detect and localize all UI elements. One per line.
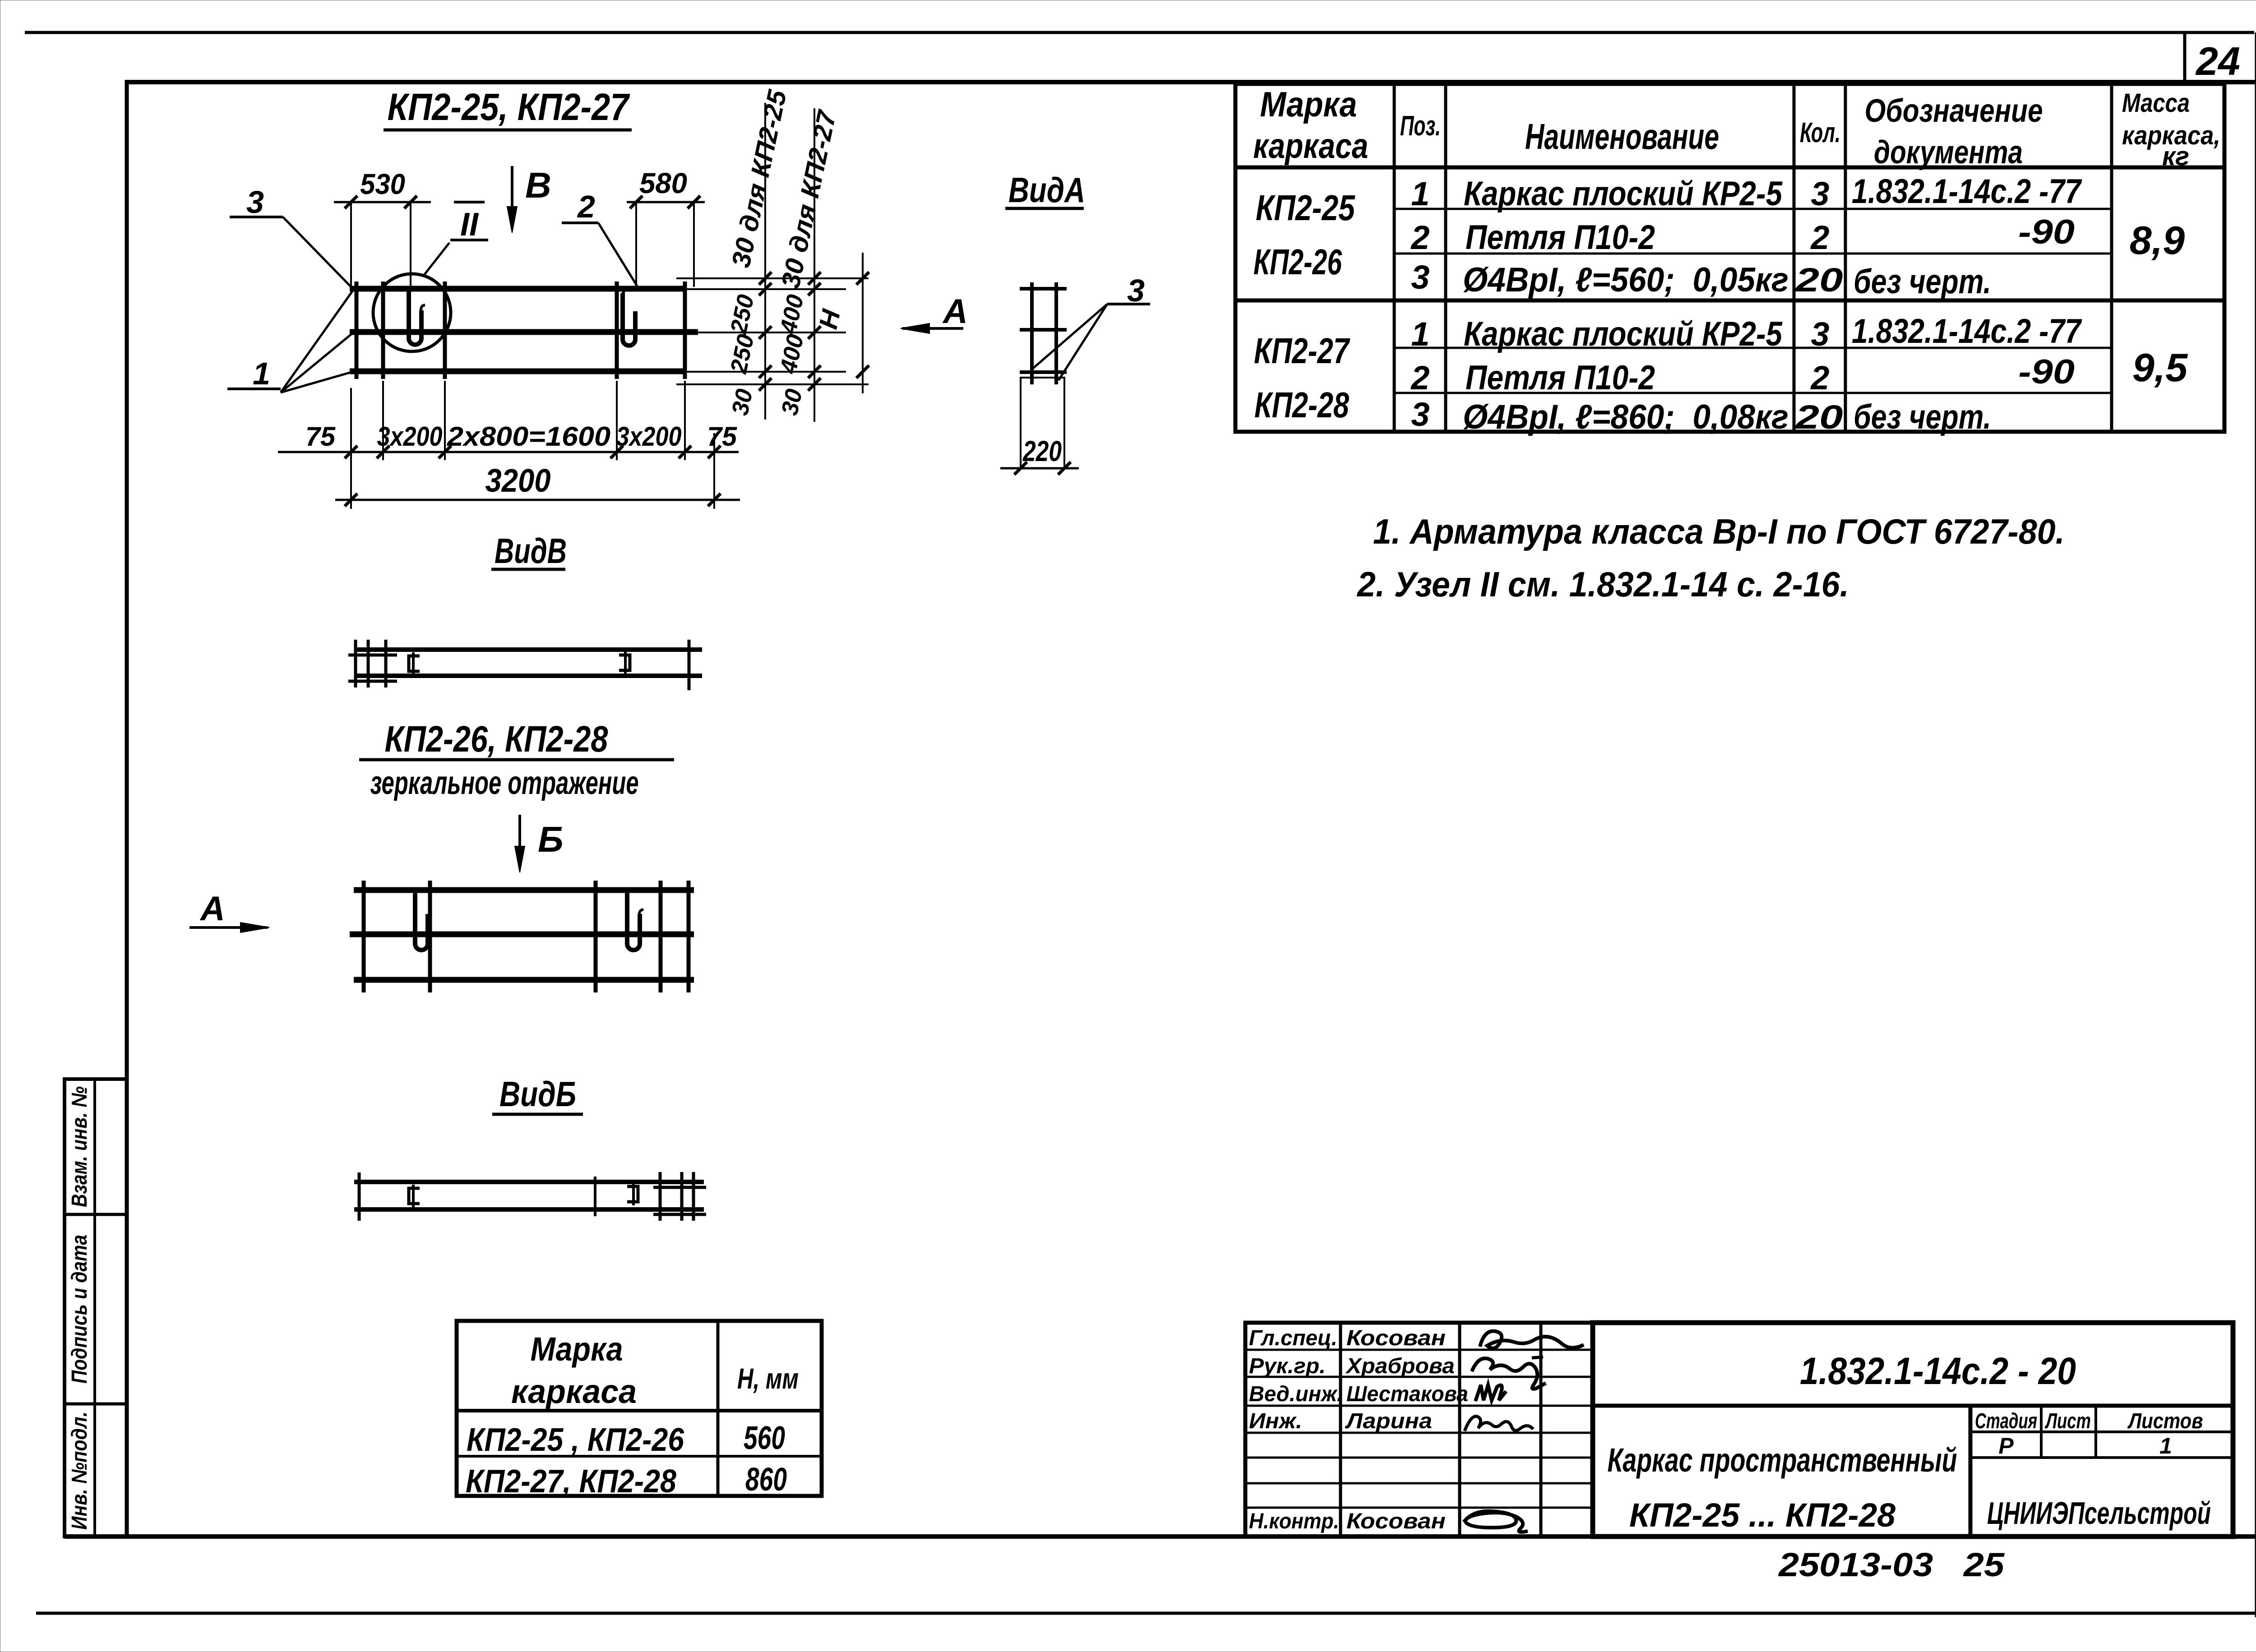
view A callout 3 bbox=[1033, 273, 1150, 380]
main cage bottom bar bbox=[350, 369, 686, 374]
view B right end bar bbox=[688, 640, 691, 690]
svg-text:2x800=1600: 2x800=1600 bbox=[447, 421, 610, 452]
view Б bottom bar bbox=[354, 1207, 704, 1212]
svg-text:1: 1 bbox=[1411, 315, 1429, 353]
svg-text:В: В bbox=[525, 165, 551, 205]
main cage right loop (Петля П10-2) bbox=[623, 290, 635, 346]
svg-text:Каркас плоский КР2-5: Каркас плоский КР2-5 bbox=[1464, 175, 1783, 213]
main cage middle bar bbox=[350, 329, 698, 335]
view B top bar bbox=[356, 647, 702, 652]
svg-text:А: А bbox=[199, 890, 225, 928]
view arrow B bbox=[507, 165, 551, 233]
svg-text:без черт.: без черт. bbox=[1854, 263, 1991, 301]
svg-text:20: 20 bbox=[1794, 398, 1843, 436]
H table bbox=[457, 1321, 822, 1496]
view arrow A (left) bbox=[901, 292, 968, 333]
svg-text:Подпись и дата: Подпись и дата bbox=[68, 1235, 92, 1384]
notes bbox=[1373, 512, 2065, 551]
view B right loop bbox=[619, 651, 630, 674]
svg-text:3x200: 3x200 bbox=[377, 421, 443, 452]
svg-text:Обозначение: Обозначение bbox=[1865, 93, 2043, 129]
view B title bbox=[491, 531, 567, 571]
rotated dim line 2 (30 для КП2-27) bbox=[775, 107, 842, 422]
stamp label Инв. №подл. bbox=[68, 1412, 92, 1530]
svg-text:Петля П10-2: Петля П10-2 bbox=[1465, 359, 1655, 397]
table header Масса каркаса, кг bbox=[2122, 88, 2220, 171]
main cage top bar bbox=[350, 286, 686, 292]
view A dimension 220 bbox=[1000, 435, 1079, 475]
svg-text:2: 2 bbox=[1810, 359, 1829, 397]
stamp label Подпись и дата bbox=[68, 1235, 92, 1384]
svg-text:220: 220 bbox=[1022, 435, 1062, 467]
view Б left end bar bbox=[358, 1172, 361, 1221]
title Каркас пространственный КП2-25 ... КП2-28 bbox=[1608, 1441, 1957, 1534]
svg-text:530: 530 bbox=[360, 168, 405, 200]
svg-text:Петля П10-2: Петля П10-2 bbox=[1465, 218, 1655, 257]
table header Поз. bbox=[1400, 111, 1441, 142]
rotated dim line 1 (30 для КП2-25) bbox=[726, 87, 792, 420]
H table row 1 bbox=[467, 1420, 785, 1458]
svg-text:Каркас плоский КР2-5: Каркас плоский КР2-5 bbox=[1464, 315, 1783, 353]
svg-text:1.832.1-14с.2 -77: 1.832.1-14с.2 -77 bbox=[1852, 172, 2082, 211]
callout 3 (main view) bbox=[230, 185, 352, 288]
svg-text:Косован: Косован bbox=[1346, 1509, 1446, 1533]
view Б right loop bbox=[627, 1183, 638, 1205]
svg-text:Наименование: Наименование bbox=[1525, 116, 1719, 157]
svg-text:КП2-27, КП2-28: КП2-27, КП2-28 bbox=[466, 1463, 676, 1500]
svg-text:II: II bbox=[460, 207, 479, 243]
table header Марка каркаса bbox=[1253, 84, 1368, 166]
svg-text:Шестакова: Шестакова bbox=[1346, 1382, 1468, 1406]
svg-text:каркаса: каркаса bbox=[1253, 126, 1368, 166]
svg-text:КП2-26: КП2-26 bbox=[1253, 242, 1342, 282]
svg-text:1: 1 bbox=[253, 356, 270, 391]
page top edge line bbox=[25, 31, 2254, 34]
specification table frame bbox=[1235, 84, 2224, 432]
svg-text:Лист: Лист bbox=[2045, 1409, 2091, 1433]
svg-text:20: 20 bbox=[1794, 261, 1843, 299]
table header Наименование bbox=[1525, 116, 1719, 157]
view arrow A (right, mirror view) bbox=[190, 890, 269, 932]
svg-text:8,9: 8,9 bbox=[2130, 218, 2185, 263]
view A concrete outline bbox=[1021, 378, 1064, 468]
svg-text:30: 30 bbox=[727, 387, 758, 418]
mirror label КП2-26, КП2-28 bbox=[359, 719, 674, 801]
page bottom edge line bbox=[36, 1612, 2256, 1615]
svg-text:Б: Б bbox=[538, 819, 564, 859]
svg-text:Храброва: Храброва bbox=[1345, 1354, 1455, 1378]
svg-text:2: 2 bbox=[1810, 219, 1829, 256]
svg-text:каркаса: каркаса bbox=[511, 1373, 637, 1410]
svg-text:Масса: Масса bbox=[2122, 88, 2190, 118]
stamp label Взам. инв. № bbox=[68, 1086, 92, 1207]
svg-text:1.832.1-14с.2 -77: 1.832.1-14с.2 -77 bbox=[1852, 312, 2082, 351]
right dim block extension lines bbox=[676, 278, 869, 384]
bottom dimension chain 75 3x200 2x800=1600 3x200 75 bbox=[278, 381, 739, 460]
svg-text:30: 30 bbox=[777, 387, 808, 418]
svg-text:КП2-26, КП2-28: КП2-26, КП2-28 bbox=[385, 719, 608, 760]
svg-text:3x200: 3x200 bbox=[616, 421, 682, 452]
signature row Вед.инж. Шестакова bbox=[1249, 1382, 1506, 1406]
svg-text:Каркас пространственный: Каркас пространственный bbox=[1608, 1441, 1957, 1479]
table mass column values bbox=[2130, 218, 2188, 390]
svg-text:Марка: Марка bbox=[1260, 84, 1357, 124]
svg-text:3: 3 bbox=[1411, 258, 1429, 296]
svg-text:75: 75 bbox=[707, 421, 738, 452]
page right edge line bbox=[2255, 32, 2256, 1617]
signature row Инж. Ларина bbox=[1249, 1409, 1533, 1433]
svg-text:3: 3 bbox=[1811, 175, 1829, 212]
table document column values bbox=[1852, 172, 2082, 436]
view arrow Б (down) bbox=[515, 815, 564, 872]
svg-text:зеркальное отражение: зеркальное отражение bbox=[370, 765, 639, 801]
svg-text:2: 2 bbox=[1410, 219, 1429, 256]
svg-text:580: 580 bbox=[639, 167, 687, 199]
mirror cage top bar bbox=[354, 887, 694, 893]
svg-text:Р: Р bbox=[1998, 1433, 2014, 1458]
left stamp column bbox=[65, 1079, 127, 1537]
mirror cage left loop bbox=[415, 890, 428, 950]
dimension 530 bbox=[334, 168, 431, 287]
view Б middle tie bbox=[594, 1177, 596, 1216]
table header Кол. bbox=[1800, 117, 1840, 148]
svg-text:Инв. №подл.: Инв. №подл. bbox=[68, 1412, 92, 1530]
svg-text:1.832.1-14с.2 - 20: 1.832.1-14с.2 - 20 bbox=[1800, 1350, 2076, 1392]
svg-text:3200: 3200 bbox=[485, 463, 551, 499]
table col1 block2 КП2-27 КП2-28 bbox=[1254, 331, 1350, 425]
table qty column values bbox=[1794, 175, 1843, 436]
svg-text:3: 3 bbox=[1411, 396, 1429, 433]
svg-text:Вед.инж.: Вед.инж. bbox=[1249, 1382, 1343, 1406]
mirror cage bottom bar bbox=[354, 977, 694, 983]
svg-text:А: А bbox=[942, 292, 968, 331]
mirror cage right loop bbox=[627, 892, 643, 950]
svg-text:ЦНИИЭПсельстрой: ЦНИИЭПсельстрой bbox=[1987, 1495, 2211, 1531]
table name column values bbox=[1463, 175, 1789, 436]
svg-text:КП2-25, КП2-27: КП2-25, КП2-27 bbox=[388, 86, 630, 128]
svg-text:КП2-27: КП2-27 bbox=[1254, 331, 1350, 371]
main cage left loop (Петля П10-2) bbox=[409, 289, 425, 345]
svg-text:КП2-28: КП2-28 bbox=[1254, 385, 1349, 425]
svg-text:2: 2 bbox=[1410, 359, 1429, 397]
svg-text:КП2-25: КП2-25 bbox=[1256, 188, 1355, 228]
callout 2 bbox=[562, 189, 637, 286]
document number 1.832.1-14с.2-20 bbox=[1800, 1350, 2076, 1392]
mirror cage middle bar bbox=[350, 932, 694, 937]
svg-text:Взам. инв. №: Взам. инв. № bbox=[68, 1086, 92, 1207]
svg-text:КП2-25 , КП2-26: КП2-25 , КП2-26 bbox=[467, 1422, 684, 1458]
callout 1 bbox=[227, 291, 353, 392]
sheet number box 24 bbox=[2185, 32, 2240, 83]
svg-text:Гл.спец.: Гл.спец. bbox=[1249, 1326, 1337, 1350]
main cage cross bars bbox=[356, 281, 685, 379]
svg-text:кг: кг bbox=[2162, 142, 2189, 171]
svg-text:24: 24 bbox=[2195, 39, 2240, 83]
view B left loop bbox=[409, 652, 420, 675]
dimension 580 bbox=[627, 167, 705, 287]
svg-text:75: 75 bbox=[305, 421, 336, 452]
svg-text:-90: -90 bbox=[2018, 353, 2075, 391]
view A title bbox=[1005, 170, 1085, 210]
svg-text:Ø4ВрI, ℓ=860; 0,08кг: Ø4ВрI, ℓ=860; 0,08кг bbox=[1463, 398, 1789, 436]
view Б left loop bbox=[409, 1185, 420, 1207]
view A rungs bbox=[1020, 289, 1067, 372]
view B left end bars bbox=[348, 640, 397, 688]
signature row Гл.спец. Косован bbox=[1249, 1326, 1584, 1350]
svg-text:Рук.гр.: Рук.гр. bbox=[1249, 1354, 1326, 1378]
svg-text:Листов: Листов bbox=[2127, 1409, 2203, 1433]
table pos column values bbox=[1410, 175, 1429, 433]
svg-text:2: 2 bbox=[577, 189, 595, 224]
svg-text:560: 560 bbox=[744, 1420, 785, 1456]
view Б top bar bbox=[354, 1180, 704, 1184]
svg-text:Кол.: Кол. bbox=[1800, 117, 1840, 148]
svg-text:3: 3 bbox=[246, 185, 264, 220]
svg-text:Н.контр.: Н.контр. bbox=[1249, 1509, 1339, 1533]
svg-text:Н, мм: Н, мм bbox=[737, 1362, 799, 1395]
title block signature table bbox=[1245, 1323, 1593, 1537]
svg-text:25013-03 25: 25013-03 25 bbox=[1778, 1546, 2005, 1583]
svg-text:без черт.: без черт. bbox=[1854, 398, 1991, 436]
view B bottom bar bbox=[356, 674, 702, 678]
svg-text:9,5: 9,5 bbox=[2132, 345, 2188, 390]
svg-text:-90: -90 bbox=[2018, 213, 2075, 251]
document code 25013-03 25 bbox=[1778, 1546, 2005, 1583]
mirror cage cross bars bbox=[364, 881, 689, 992]
table col1 block1 КП2-25 КП2-26 bbox=[1253, 188, 1355, 282]
view A ladder verticals bbox=[1032, 282, 1056, 384]
table header Обозначение документа bbox=[1865, 93, 2043, 171]
svg-text:2. Узел II см. 1.832.1-14 с. 2: 2. Узел II см. 1.832.1-14 с. 2-16. bbox=[1356, 564, 1849, 604]
svg-text:1: 1 bbox=[1411, 175, 1429, 212]
svg-text:860: 860 bbox=[745, 1462, 787, 1498]
signature row Рук.гр. Храброва bbox=[1249, 1354, 1546, 1389]
node II label bbox=[423, 202, 488, 276]
svg-text:Ларина: Ларина bbox=[1345, 1409, 1432, 1433]
svg-text:ВидБ: ВидБ bbox=[499, 1074, 576, 1114]
svg-text:ВидВ: ВидВ bbox=[495, 531, 567, 571]
organization ЦНИИЭПсельстрой bbox=[1987, 1495, 2211, 1531]
svg-text:ВидА: ВидА bbox=[1008, 170, 1085, 210]
overall dimension 3200 bbox=[335, 460, 740, 509]
H table row 2 bbox=[466, 1462, 787, 1500]
svg-text:Марка: Марка bbox=[531, 1330, 623, 1368]
svg-text:1: 1 bbox=[2159, 1433, 2172, 1458]
svg-text:1. Арматура класса Вр-I по: 1. Арматура класса Вр-I по ГОСТ 6727-80. bbox=[1373, 512, 2065, 551]
svg-text:Косован: Косован bbox=[1346, 1326, 1446, 1350]
signature row Н.контр. Косован bbox=[1249, 1509, 1528, 1533]
view Б title bbox=[492, 1074, 583, 1114]
svg-text:Ø4ВрI, ℓ=560; 0,05кг: Ø4ВрI, ℓ=560; 0,05кг bbox=[1463, 261, 1789, 299]
stage columns bbox=[1970, 1406, 2233, 1458]
svg-text:Поз.: Поз. bbox=[1400, 111, 1441, 142]
dimension H bbox=[814, 253, 869, 393]
svg-text:Инж.: Инж. bbox=[1249, 1409, 1302, 1433]
node II circle bbox=[373, 274, 451, 351]
H table header bbox=[511, 1330, 799, 1410]
svg-text:Стадия: Стадия bbox=[1975, 1409, 2037, 1433]
view Б right end bars bbox=[653, 1172, 706, 1221]
svg-text:КП2-25 ... КП2-28: КП2-25 ... КП2-28 bbox=[1629, 1496, 1896, 1534]
svg-text:документа: документа bbox=[1874, 134, 2023, 171]
title block main box bbox=[1593, 1323, 2233, 1537]
main view title КП2-25, КП2-27 bbox=[384, 86, 632, 130]
svg-text:3: 3 bbox=[1811, 315, 1829, 353]
